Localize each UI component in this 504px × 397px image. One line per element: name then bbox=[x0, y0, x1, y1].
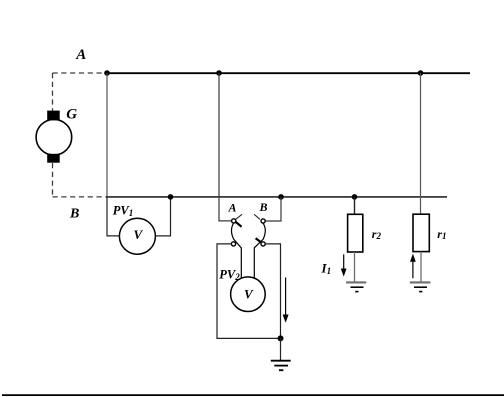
switch B bottom blade thick bbox=[256, 238, 262, 243]
wire r2 top lead bbox=[354, 197, 356, 214]
ground r1 bar2 bbox=[414, 286, 427, 288]
wire PV2 loop left bbox=[217, 244, 281, 339]
wire switch B lead from bus B bbox=[265, 197, 281, 221]
switch A blade thick bbox=[235, 222, 241, 227]
switch contact B bottom bbox=[261, 242, 265, 246]
wire bus A dashed segment bbox=[53, 72, 108, 74]
svg-text:A: A bbox=[228, 201, 237, 215]
svg-text:B: B bbox=[259, 200, 268, 214]
switch A blade thin bbox=[235, 214, 242, 219]
wire PV2 loop right bbox=[265, 244, 280, 339]
ground r2 bar2 bbox=[351, 286, 364, 288]
junction dot bus A / r1 riser bbox=[418, 70, 424, 76]
ground PV2 bar3 bbox=[279, 369, 284, 371]
junction dot bus A / switch riser bbox=[216, 70, 222, 76]
wire PV1 left lead from bus A bbox=[106, 73, 108, 197]
ground PV2 bar1 bbox=[271, 360, 291, 362]
current arrow down beside r2 bbox=[343, 254, 345, 272]
wire PV1 right lead to bus B bbox=[156, 197, 171, 236]
current arrow up beside r1 bbox=[412, 259, 414, 278]
ground r2 bar3 bbox=[355, 291, 358, 293]
wire bus B dashed segment bbox=[53, 196, 108, 198]
current arrow down beside PV2 bbox=[285, 278, 287, 319]
wire bus B bbox=[106, 196, 447, 198]
switch contact A bottom bbox=[231, 242, 235, 246]
ground r2 bar1 bbox=[346, 281, 366, 283]
wire r1 bottom lead bbox=[420, 252, 422, 283]
switch B blade thin bbox=[254, 214, 260, 219]
arc PV2 right lead from contact B bbox=[254, 223, 265, 277]
svg-text:V: V bbox=[244, 287, 254, 302]
wire generator bottom dashed bbox=[52, 163, 54, 197]
wire ground stem PV2 bbox=[280, 338, 282, 360]
wire r1 riser from bus A bbox=[420, 73, 422, 214]
ground r1 bar1 bbox=[410, 281, 431, 283]
svg-text:V: V bbox=[134, 227, 144, 242]
bottom border line bbox=[2, 394, 504, 396]
generator G bottom brush bbox=[47, 154, 60, 163]
switch contact A top bbox=[232, 219, 236, 223]
svg-text:B: B bbox=[69, 207, 79, 222]
svg-text:G: G bbox=[66, 107, 77, 123]
junction dot bus B / switch B bbox=[278, 194, 284, 200]
voltmeter PV2 bbox=[231, 277, 266, 312]
arc PV2 left lead from contact A bbox=[232, 223, 242, 278]
junction dot bus B / PV1 bbox=[168, 194, 174, 200]
wire bus A bbox=[106, 72, 470, 74]
ground PV2 bar2 bbox=[274, 365, 288, 367]
voltmeter PV1 bbox=[119, 218, 155, 254]
resistor r2 bbox=[348, 214, 363, 252]
switch contact B top bbox=[261, 219, 265, 223]
generator G bbox=[36, 119, 72, 155]
wire r2 bottom lead bbox=[354, 252, 356, 282]
resistor r1 bbox=[413, 214, 429, 251]
ground r1 bar3 bbox=[419, 291, 422, 293]
wire switch A riser from bus A bbox=[219, 73, 232, 221]
generator G top brush bbox=[47, 111, 60, 121]
junction dot bus B / r2 bbox=[352, 194, 358, 200]
junction dot ground node bbox=[278, 335, 284, 341]
svg-text:A: A bbox=[75, 47, 86, 63]
wire generator top dashed bbox=[52, 73, 54, 112]
junction dot bus A / generator riser bbox=[104, 70, 110, 76]
